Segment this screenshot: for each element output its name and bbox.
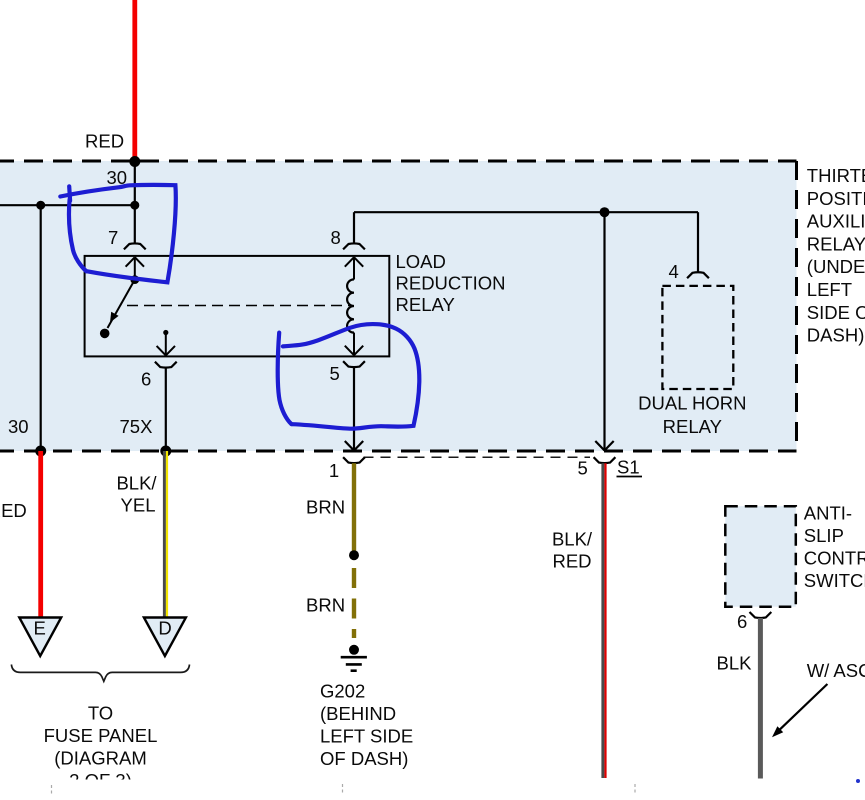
connector pin 6 of switch bbox=[750, 612, 772, 618]
svg-text:LEFT: LEFT bbox=[807, 279, 852, 300]
connector triangle D bbox=[144, 618, 186, 657]
wire: BRN solid segment bbox=[352, 463, 356, 555]
label TO FUSE PANEL (DIAGRAM 2 OF 3) bbox=[44, 703, 158, 792]
junction on horizontal branch bbox=[36, 201, 45, 210]
wire: left vertical drop to pin 30 bbox=[40, 205, 42, 451]
pin 6 contact inside relay bbox=[157, 330, 175, 356]
svg-text:FUSE PANEL: FUSE PANEL bbox=[44, 725, 158, 746]
splice dot on BRN wire bbox=[349, 550, 359, 560]
blue annotation scribble around pin 5 bbox=[278, 324, 420, 429]
anti-slip control switch (dashed box) bbox=[725, 506, 796, 607]
svg-text:SWITCH: SWITCH bbox=[804, 570, 865, 591]
svg-text:YEL: YEL bbox=[121, 495, 156, 516]
svg-text:4: 4 bbox=[669, 261, 679, 282]
wire: BLK down bbox=[758, 618, 763, 779]
svg-text:1: 1 bbox=[329, 460, 339, 481]
crop band over bottom text bbox=[0, 780, 590, 796]
junction at bottom border bbox=[35, 446, 46, 457]
svg-text:RED: RED bbox=[85, 131, 124, 152]
svg-text:BLK: BLK bbox=[717, 653, 753, 674]
wire: BLK/YEL to connector D bbox=[164, 451, 167, 618]
label BLK/YEL bbox=[116, 473, 157, 516]
relay actuation dashed link bbox=[127, 305, 350, 307]
svg-text:(UNDER: (UNDER bbox=[807, 256, 865, 277]
svg-text:BRN: BRN bbox=[306, 497, 345, 518]
svg-text:30: 30 bbox=[8, 416, 29, 437]
label S1 (underlined) bbox=[617, 457, 643, 478]
svg-text:ANTI-: ANTI- bbox=[804, 503, 852, 524]
switch common arrow (pin 7 inside relay) bbox=[126, 257, 144, 279]
label THIRTEEN POSITION AUXILIARY RELAY BOX (UNDER LEFT SIDE OF DASH) bbox=[807, 165, 865, 346]
svg-text:BLK/: BLK/ bbox=[552, 529, 593, 550]
annotation arrow to BLK wire bbox=[772, 684, 827, 737]
svg-text:LOAD: LOAD bbox=[396, 251, 446, 272]
svg-text:(DIAGRAM: (DIAGRAM bbox=[54, 748, 147, 769]
blue annotation scribble over switch pins bbox=[60, 185, 176, 282]
junction at box entry bbox=[129, 156, 140, 167]
load reduction relay box bbox=[85, 256, 390, 357]
junction on pin7 wire bbox=[130, 201, 139, 210]
svg-text:6: 6 bbox=[141, 369, 151, 390]
wire: RED feed from top bbox=[132, 0, 137, 161]
label G202 (BEHIND LEFT SIDE OF DASH) bbox=[320, 681, 413, 770]
svg-text:OF DASH): OF DASH) bbox=[320, 748, 408, 769]
svg-text:CONTROL: CONTROL bbox=[804, 548, 865, 569]
dual horn relay (dashed box) bbox=[662, 286, 733, 389]
svg-text:RED: RED bbox=[0, 500, 27, 521]
page edge tick marks bbox=[52, 784, 636, 795]
svg-text:G202: G202 bbox=[320, 681, 365, 702]
connector pin 7 (female terminal) bbox=[124, 243, 146, 249]
switch blade with arrowhead bbox=[108, 280, 135, 328]
svg-text:THIRTEEN: THIRTEEN bbox=[807, 165, 865, 186]
wire: RED to fuse panel connector E bbox=[38, 451, 43, 618]
switch movable contact dot bbox=[130, 275, 139, 284]
svg-text:RELAY BOX: RELAY BOX bbox=[807, 233, 865, 254]
wire: BLK/RED down bbox=[603, 463, 606, 778]
svg-text:DASH): DASH) bbox=[807, 325, 865, 346]
connector triangle E bbox=[19, 618, 61, 657]
wire: pin 6 to bottom border bbox=[165, 368, 167, 451]
svg-text:RELAY: RELAY bbox=[396, 294, 455, 315]
connector pin 8 (female terminal) bbox=[343, 243, 365, 249]
connector pin 5 (female terminal) bbox=[343, 361, 365, 367]
switch fixed contact dot bbox=[100, 329, 110, 339]
relay coil (pin 8 to pin 5) bbox=[345, 257, 363, 355]
junction pin 75X at bottom border bbox=[160, 446, 171, 457]
ground G202 bbox=[341, 645, 367, 671]
blue mark bottom right bbox=[856, 779, 860, 783]
svg-text:5: 5 bbox=[578, 458, 588, 479]
connector pin 4 (female terminal) bbox=[687, 272, 709, 278]
connector splice S1 (below border) bbox=[594, 457, 616, 463]
svg-text:BRN: BRN bbox=[306, 595, 345, 616]
wire: splice S1 drop with arrow bbox=[595, 212, 613, 450]
label BLK/RED bbox=[552, 529, 593, 572]
wire: pin 5 down to bottom border with arrow bbox=[345, 367, 363, 450]
svg-text:BLK/: BLK/ bbox=[116, 473, 157, 494]
svg-text:(BEHIND: (BEHIND bbox=[320, 703, 396, 724]
connector pin 1 (below border) bbox=[343, 457, 365, 463]
svg-text:D: D bbox=[158, 618, 171, 639]
wire: horizontal branch to left edge bbox=[0, 204, 135, 206]
svg-text:8: 8 bbox=[331, 227, 341, 248]
svg-text:SLIP: SLIP bbox=[804, 525, 844, 546]
svg-text:7: 7 bbox=[108, 227, 118, 248]
svg-text:E: E bbox=[34, 618, 46, 639]
connector pin 6 (female terminal) bbox=[155, 362, 177, 368]
wire: pin 30 down to pin 7 bbox=[134, 162, 136, 244]
junction to dual horn relay feed bbox=[600, 207, 610, 217]
thirteen position auxiliary relay box (dashed enclosure, light blue) bbox=[0, 161, 797, 451]
svg-text:DUAL HORN: DUAL HORN bbox=[638, 393, 746, 414]
svg-text:RED: RED bbox=[552, 551, 591, 572]
svg-text:TO: TO bbox=[88, 703, 113, 724]
svg-text:5: 5 bbox=[330, 363, 340, 384]
label ANTI-SLIP CONTROL SWITCH bbox=[804, 503, 865, 592]
svg-text:LEFT SIDE: LEFT SIDE bbox=[320, 726, 413, 747]
wire: BRN dashed segment to ground bbox=[352, 568, 356, 638]
svg-text:6: 6 bbox=[737, 611, 747, 632]
thin dashed panel edge below border bbox=[364, 456, 591, 458]
wire: pin 8 up and across to dual horn branch bbox=[354, 212, 698, 243]
svg-text:RELAY: RELAY bbox=[663, 416, 722, 437]
svg-text:W/ ASC: W/ ASC bbox=[807, 660, 865, 681]
brace to fuse panel bbox=[11, 665, 189, 682]
wire: dual horn relay branch down bbox=[697, 212, 699, 272]
svg-text:POSITION: POSITION bbox=[807, 188, 865, 209]
svg-text:AUXILIARY: AUXILIARY bbox=[807, 211, 865, 232]
svg-text:REDUCTION: REDUCTION bbox=[396, 273, 506, 294]
svg-text:S1: S1 bbox=[617, 457, 640, 478]
svg-text:SIDE OF: SIDE OF bbox=[807, 302, 865, 323]
svg-text:75X: 75X bbox=[120, 416, 153, 437]
